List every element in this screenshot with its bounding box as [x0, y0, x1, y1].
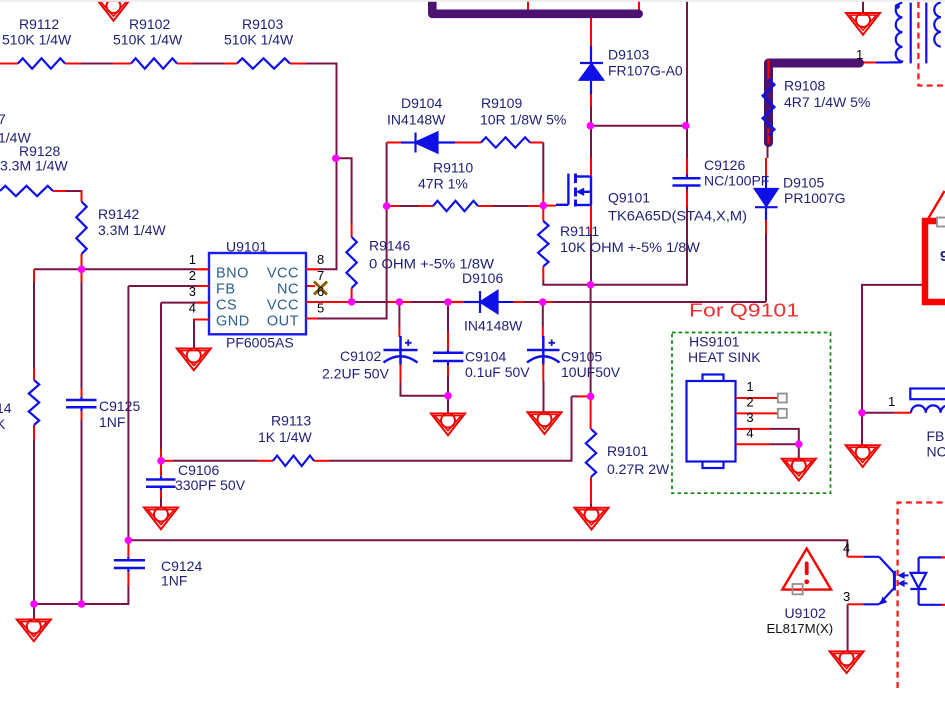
- capacitor C9102 polarized: [384, 336, 418, 365]
- svg-text:4R7 1/4W 5%: 4R7 1/4W 5%: [784, 94, 870, 110]
- wire left vertical to R9114: [33, 269, 35, 380]
- wire R9146 bottom stub: [351, 288, 353, 302]
- label D9105: [783, 175, 845, 207]
- svg-text:1: 1: [746, 379, 753, 394]
- label U9102: [767, 605, 834, 636]
- wire R9128 to R9142: [53, 191, 82, 202]
- svg-text:FB9: FB9: [927, 428, 945, 444]
- wire source to R9101 node: [590, 285, 592, 397]
- svg-text:FB: FB: [216, 282, 236, 298]
- svg-text:510K 1/4W: 510K 1/4W: [2, 32, 72, 48]
- power bus thick trace top: [432, 0, 638, 14]
- diode D9103: [580, 46, 603, 94]
- svg-text:10UF50V: 10UF50V: [561, 364, 621, 380]
- svg-text:NC/100PF: NC/100PF: [704, 173, 769, 189]
- mosfet Q9101: [556, 174, 591, 207]
- svg-text:1K 1/4W: 1K 1/4W: [258, 429, 312, 445]
- wire R9114 bottom to bottom rail: [33, 425, 35, 604]
- transformer T primary winding: [890, 3, 902, 63]
- svg-text:VCC: VCC: [267, 298, 299, 314]
- wire D9105 top to R9108: [766, 144, 768, 189]
- label D9106: [462, 270, 523, 334]
- svg-text:1NF: 1NF: [99, 414, 125, 430]
- wire C9102 bottom to shared ground: [401, 365, 449, 396]
- svg-text:1NF: 1NF: [161, 573, 187, 589]
- svg-text:0.1uF 50V: 0.1uF 50V: [465, 364, 530, 380]
- gray pad warning triangle: [793, 584, 803, 594]
- label FB fragment: [927, 428, 945, 460]
- optocoupler light arrows: [897, 572, 908, 587]
- svg-text:R9108: R9108: [784, 78, 825, 94]
- label R9103: [224, 16, 294, 48]
- label C9105: [561, 349, 621, 381]
- wire CS pin3 horizontal: [161, 302, 209, 304]
- svg-text:HEAT SINK: HEAT SINK: [688, 349, 761, 365]
- red annotation box right edge: [925, 221, 945, 302]
- label R9110: [418, 160, 473, 192]
- capacitor C9106: [146, 476, 176, 490]
- label HS9101: [688, 334, 761, 366]
- svg-text:CS: CS: [216, 298, 237, 314]
- svg-text:D9104: D9104: [401, 95, 442, 111]
- wire D9105 bottom riser: [765, 220, 767, 302]
- resistor R9108 overlay on bus: [763, 60, 775, 144]
- svg-text:3: 3: [746, 410, 753, 425]
- svg-text:3.3M 1/4W: 3.3M 1/4W: [0, 158, 68, 174]
- resistor R9146: [346, 237, 356, 288]
- svg-text:NC/: NC/: [927, 444, 945, 460]
- svg-text:9: 9: [940, 248, 945, 265]
- ic U9101 pin names: [216, 266, 299, 330]
- wire C9126 line to top edge: [686, 0, 688, 126]
- wire FB node to ferrite bead: [862, 412, 911, 414]
- ground C9106: [144, 508, 178, 530]
- capacitor C9105 polarized: [527, 336, 560, 365]
- svg-text:7: 7: [0, 111, 6, 127]
- label C9125: [99, 398, 140, 430]
- heat sink pin2 pad: [778, 409, 787, 418]
- wire D9104 to R9109 link: [453, 142, 481, 144]
- wire C9124 node to C9124 top: [127, 540, 129, 557]
- wire CS vertical to sense node: [160, 303, 162, 461]
- label C9106: [175, 462, 246, 493]
- svg-text:BNO: BNO: [216, 266, 249, 282]
- wire FB pin2 horizontal: [128, 285, 209, 287]
- diode D9105: [755, 189, 778, 220]
- svg-text:HS9101: HS9101: [689, 334, 740, 350]
- svg-text:R9103: R9103: [242, 16, 283, 32]
- no-connect X pin7: [314, 282, 327, 295]
- wire C9104 bottom to ground: [447, 366, 449, 414]
- wire R9109 to gate corner: [530, 143, 543, 206]
- wire R9101 node to R9101: [590, 396, 592, 429]
- ground top left: [97, 0, 131, 21]
- resistor R9102: [131, 58, 177, 68]
- wire mosfet source down: [590, 205, 592, 285]
- svg-text:D9105: D9105: [783, 175, 824, 191]
- resistor R9113: [273, 456, 314, 466]
- wire source rail to C9126 riser: [591, 190, 687, 285]
- resistor R9111: [538, 221, 548, 267]
- capacitor C9124: [114, 557, 145, 572]
- svg-text:5: 5: [317, 301, 324, 316]
- svg-text:C9106: C9106: [178, 462, 219, 478]
- wire bus feed stubs from top: [528, 0, 639, 12]
- wire BNO node horizontal to pin1: [82, 268, 210, 270]
- ground R9101: [575, 508, 609, 530]
- heat sink pin1 pad: [778, 394, 787, 403]
- label D9103: [608, 47, 683, 79]
- svg-text:GND: GND: [216, 314, 250, 330]
- wire R9113 sense run: [161, 396, 591, 460]
- U9102 pin numbers: [843, 541, 850, 605]
- gray pad on red box: [937, 218, 945, 227]
- svg-text:D9103: D9103: [608, 47, 649, 63]
- svg-text:2: 2: [746, 394, 753, 409]
- label C9102: [322, 348, 390, 382]
- ground U9101 gnd pin: [177, 349, 211, 371]
- svg-text:4: 4: [746, 425, 753, 440]
- wire HS9101 pin3 bend: [770, 429, 799, 444]
- capacitor C9104: [433, 350, 463, 366]
- ic U9101 pin numbers: [189, 252, 324, 316]
- resistor R9103: [237, 58, 290, 68]
- label C9126: [704, 157, 769, 189]
- resistor R9109: [481, 137, 530, 147]
- heat sink HS9101 body: [687, 375, 736, 469]
- ground transformer: [846, 13, 880, 35]
- resistor R9128: [0, 186, 53, 196]
- svg-text:U9101: U9101: [226, 239, 267, 255]
- ic U9101 body: [209, 253, 306, 334]
- svg-text:7: 7: [317, 268, 324, 283]
- wire drain link horizontal: [590, 125, 687, 127]
- svg-text:47R 1%: 47R 1%: [418, 176, 468, 192]
- red annotation diagonal: [927, 191, 944, 220]
- svg-text:R9113: R9113: [271, 413, 311, 429]
- wire bus stub D9103: [590, 18, 592, 47]
- wire C9126 top to drain link: [686, 126, 688, 178]
- diode D9106: [449, 291, 498, 313]
- svg-text:TK6A65D(STA4,X,M): TK6A65D(STA4,X,M): [608, 208, 747, 224]
- heat sink pin numbers: [746, 379, 753, 440]
- wire transformer ground stub: [862, 0, 864, 13]
- wire C9125 bottom to bottom rail: [81, 411, 83, 604]
- svg-text:2.2UF 50V: 2.2UF 50V: [322, 366, 390, 382]
- wire U9102 pin4 stub: [847, 556, 863, 558]
- svg-text:1: 1: [189, 252, 196, 267]
- resistor R9101: [586, 429, 596, 477]
- label R9102: [113, 16, 183, 48]
- wire R9142 bottom to junction: [81, 254, 83, 269]
- resistor R9112: [18, 58, 65, 68]
- U9101 pin stubs: [194, 269, 319, 319]
- ground HS9101: [782, 459, 816, 481]
- red dashed isolation line top right: [918, 2, 945, 86]
- wire HS9101 pin4 run: [770, 444, 799, 459]
- label R9108: [784, 78, 870, 111]
- wire C9124 bottom to bottom rail corner: [34, 572, 128, 604]
- transformer secondary winding: [934, 3, 941, 47]
- svg-text:330PF 50V: 330PF 50V: [175, 477, 246, 493]
- wire C9105 top stub: [542, 302, 544, 337]
- svg-text:R9112: R9112: [19, 16, 59, 32]
- svg-text:C9126: C9126: [704, 157, 745, 173]
- optocoupler U9102 led: [910, 557, 945, 604]
- svg-text:8: 8: [317, 252, 324, 267]
- svg-text:D9106: D9106: [462, 270, 503, 286]
- svg-text:R9110: R9110: [433, 160, 473, 176]
- svg-text:IN4148W: IN4148W: [464, 318, 523, 334]
- svg-text:K: K: [0, 416, 6, 432]
- wire R9103 to U9101 pin8 vertical: [306, 64, 337, 270]
- wire long feedback rail: [128, 540, 847, 557]
- svg-text:10R 1/8W 5%: 10R 1/8W 5%: [480, 112, 566, 128]
- wire OUT pin5 to gate drive vertical: [306, 143, 401, 319]
- warning triangle U9102: [782, 549, 831, 590]
- power bus thick trace to transformer: [769, 63, 860, 143]
- svg-text:14: 14: [0, 400, 12, 416]
- label R9146: [369, 238, 495, 272]
- capacitor C9126: [673, 175, 701, 190]
- svg-text:C9104: C9104: [465, 349, 506, 365]
- ground bottom left: [17, 620, 51, 642]
- transformer core: [911, 3, 927, 64]
- svg-text:For Q9101: For Q9101: [689, 301, 799, 321]
- svg-text:C9102: C9102: [340, 348, 381, 364]
- wire R9111 bottom to source rail: [543, 267, 590, 285]
- resistor R9110: [433, 201, 478, 211]
- wire BNO node left branch: [34, 268, 82, 270]
- green dashed heat sink box: [672, 333, 831, 494]
- ground C9105: [528, 412, 562, 434]
- wire gate stub: [543, 205, 556, 207]
- label C9104: [465, 349, 530, 381]
- svg-text:U9102: U9102: [785, 605, 826, 621]
- wire drain node to mosfet: [590, 126, 592, 177]
- resistor R9114: [29, 380, 39, 425]
- svg-text:R9101: R9101: [607, 443, 648, 459]
- svg-text:2: 2: [189, 268, 196, 283]
- wire R9101 bottom to ground: [590, 477, 592, 508]
- svg-text:C9125: C9125: [99, 398, 140, 414]
- svg-text:OUT: OUT: [267, 314, 299, 330]
- wire FB vertical to C9124 node: [127, 286, 129, 540]
- diode D9104: [401, 133, 455, 153]
- wire NC pin7 stub: [306, 285, 315, 287]
- svg-text:3: 3: [843, 589, 850, 604]
- svg-text:4: 4: [189, 301, 196, 316]
- red dashed isolation line bottom right: [898, 503, 945, 689]
- resistor R9142: [76, 202, 86, 255]
- wire bottom-left ground stub: [33, 604, 35, 619]
- label R9128: [0, 143, 68, 174]
- svg-text:R9142: R9142: [98, 206, 139, 222]
- svg-text:C9105: C9105: [561, 349, 602, 365]
- wire C9105 bottom to ground: [542, 365, 544, 413]
- svg-text:R9109: R9109: [481, 95, 522, 111]
- svg-text:4: 4: [843, 541, 850, 556]
- svg-text:IN4148W: IN4148W: [387, 112, 446, 128]
- label R9112: [2, 16, 72, 48]
- svg-text:510K 1/4W: 510K 1/4W: [224, 32, 294, 48]
- wire junction down to C9125: [81, 269, 83, 397]
- ground FB node: [846, 445, 880, 467]
- optocoupler U9102 phototransistor: [863, 557, 894, 605]
- label fragment R9114: [0, 400, 12, 432]
- wire U9102 pin3 stub to ground: [848, 604, 864, 651]
- heat sink pin lines: [736, 398, 778, 444]
- svg-text:3.3M 1/4W: 3.3M 1/4W: [98, 222, 166, 238]
- svg-text:3: 3: [189, 284, 196, 299]
- svg-text:10K OHM +-5% 1/8W: 10K OHM +-5% 1/8W: [560, 239, 701, 255]
- label R9142: [98, 206, 166, 238]
- wire D9103 bottom to drain node: [590, 94, 592, 126]
- label U9101: [226, 239, 294, 351]
- svg-text:FR107G-A0: FR107G-A0: [608, 63, 683, 79]
- svg-text:510K 1/4W: 510K 1/4W: [113, 32, 183, 48]
- svg-text:NC: NC: [277, 282, 299, 298]
- svg-text:R9146: R9146: [369, 238, 410, 254]
- wire C9106 stub and ground: [160, 461, 162, 508]
- svg-text:0.27R 2W: 0.27R 2W: [607, 461, 670, 477]
- label fragment R9107: [0, 111, 31, 146]
- svg-text:VCC: VCC: [267, 266, 299, 282]
- svg-text:EL817M(X): EL817M(X): [767, 621, 834, 636]
- wire GND pin4 to ground: [194, 320, 209, 349]
- label R9101: [607, 443, 670, 477]
- svg-text:PR1007G: PR1007G: [784, 190, 845, 206]
- wire FB node to ground: [861, 413, 863, 445]
- svg-text:Q9101: Q9101: [608, 190, 650, 206]
- wire R9110 row: [387, 205, 544, 207]
- svg-text:6: 6: [317, 284, 324, 299]
- svg-text:PF6005AS: PF6005AS: [226, 335, 294, 351]
- wire R9111 top stub: [542, 206, 544, 221]
- label Q9101: [608, 190, 747, 224]
- capacitor C9125: [66, 397, 97, 412]
- ground U9102 pin3: [830, 651, 864, 673]
- wire C9104 top stub: [447, 302, 449, 350]
- svg-text:1: 1: [856, 47, 863, 62]
- svg-text:R9102: R9102: [129, 16, 170, 32]
- wire junction to R9146 top: [337, 158, 352, 237]
- label C9124: [161, 558, 202, 589]
- label R9109: [480, 95, 566, 128]
- ferrite bead FB: [910, 389, 945, 413]
- svg-text:R9111: R9111: [560, 223, 599, 239]
- wire transformer pin1: [860, 62, 890, 64]
- label R9113: [258, 413, 312, 446]
- ground C9102 C9104: [431, 414, 465, 436]
- svg-text:1: 1: [888, 394, 895, 409]
- label R9111: [560, 223, 701, 255]
- wire top resistor chain net: [0, 63, 306, 65]
- wire VCC pin6 net horizontal: [306, 301, 766, 303]
- wire VCC right edge net: [862, 285, 945, 413]
- label D9104: [387, 95, 446, 128]
- wire C9102 top stub: [398, 302, 400, 337]
